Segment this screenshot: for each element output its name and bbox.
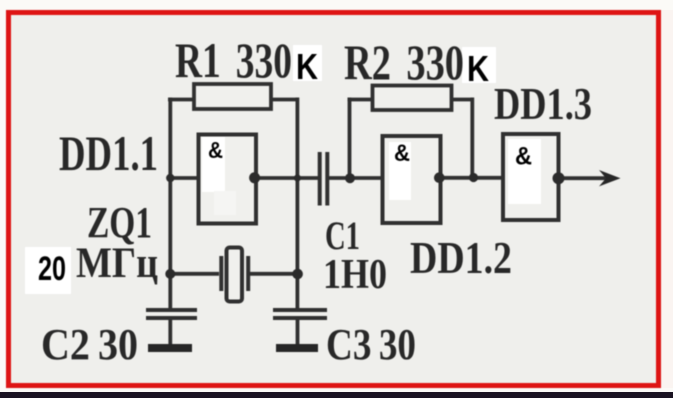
svg-text:DD1.1: DD1.1 (59, 125, 158, 181)
white patch inside DD1.1 (202, 137, 236, 215)
white patch behind K of R2 (462, 47, 496, 83)
wire DD1.2 output to DD1.3 input (440, 176, 504, 180)
svg-text:МГц: МГц (76, 240, 158, 287)
svg-text:C2 30: C2 30 (41, 320, 138, 369)
svg-text:&: & (515, 143, 532, 171)
label C2 30 (41, 320, 138, 369)
capacitor C1 left plate (318, 152, 322, 206)
capacitor C1 right plate (325, 152, 329, 206)
resistor R2 (373, 86, 452, 111)
wire R1 left lead (168, 98, 195, 102)
label ZQ1 (87, 198, 152, 247)
wire DD1.1 output to C1 (256, 176, 319, 180)
wire node B vertical (DD1.1 output net) (295, 98, 299, 310)
junction dot input DD1.1 (166, 174, 174, 182)
wire R2 right lead (451, 98, 474, 102)
white patch behind 20 (25, 247, 71, 294)
label DD1.3 (494, 79, 592, 129)
ampersand in DD1.3 (515, 143, 532, 171)
capacitor C2 top plate (146, 308, 197, 312)
label DD1.1 (59, 125, 158, 181)
crystal ZQ1 body (227, 248, 243, 302)
logic gate DD1.2 (383, 136, 441, 223)
ampersand in DD1.2 (394, 140, 410, 167)
ground bar below C2 (148, 344, 192, 352)
junction dot crystal right (292, 269, 303, 280)
logic gate DD1.1 (199, 135, 257, 224)
label C3 30 (326, 320, 416, 369)
wire R2 left lead (348, 98, 375, 102)
wire DD1.3 output (558, 176, 608, 180)
white patch behind K of R1 (293, 45, 322, 81)
wire node A vertical (DD1.1 input net) (168, 98, 172, 310)
logic gate DD1.3 (503, 134, 559, 220)
junction dot C1-R2 node (345, 173, 355, 183)
svg-text:&: & (208, 137, 223, 163)
junction dot R2 right (469, 173, 478, 182)
svg-text:DD1.2: DD1.2 (410, 232, 512, 283)
output arrowhead (599, 170, 621, 186)
label МГц (76, 240, 158, 287)
capacitor C3 top plate (273, 308, 327, 312)
svg-text:20: 20 (38, 250, 66, 288)
white patch inside DD1.3 (508, 139, 541, 204)
label 1H0 (323, 252, 387, 298)
label R2 330 (344, 34, 464, 90)
bottom black bar (0, 392, 673, 398)
label K after R1 (296, 46, 318, 87)
ampersand in DD1.1 (208, 137, 223, 163)
wire R2 left vertical (348, 98, 352, 179)
crystal ZQ1 right plate (246, 256, 250, 291)
svg-text:DD1.3: DD1.3 (494, 79, 592, 129)
label K after R2 (467, 48, 489, 89)
wire R1 right lead (271, 98, 299, 102)
wire DD1.1 input (169, 176, 199, 180)
wire C3 to ground (296, 318, 300, 346)
label 20 (added) (38, 250, 66, 288)
junction dot crystal left (165, 269, 175, 279)
junction dot DD1.3 output (553, 172, 565, 184)
resistor R1 (194, 84, 271, 109)
wire R2 right vertical (470, 98, 474, 179)
capacitor C2 bottom plate (146, 316, 197, 320)
junction dot DD1.1 output (249, 172, 260, 183)
svg-text:1H0: 1H0 (323, 252, 387, 298)
label DD1.2 (410, 232, 512, 283)
label C1 (325, 213, 360, 258)
junction dot node B main wire (294, 174, 301, 181)
white patch inside DD1.2 (389, 142, 411, 200)
svg-text:C3 30: C3 30 (326, 320, 416, 369)
ground bar below C3 (276, 344, 318, 352)
svg-text:K: K (467, 48, 489, 89)
label R1 330 (175, 32, 292, 88)
wire C2 to ground (168, 318, 172, 346)
capacitor C3 bottom plate (273, 316, 327, 320)
wire crystal left (170, 272, 219, 276)
junction dot DD1.2 output (434, 172, 445, 183)
svg-text:R1 330: R1 330 (175, 32, 292, 88)
svg-text:K: K (296, 46, 318, 87)
wire C1 to DD1.2 input (329, 176, 384, 180)
svg-text:R2 330: R2 330 (344, 34, 464, 90)
svg-text:&: & (394, 140, 410, 167)
crystal ZQ1 left plate (219, 256, 223, 291)
wire crystal right (250, 272, 298, 276)
